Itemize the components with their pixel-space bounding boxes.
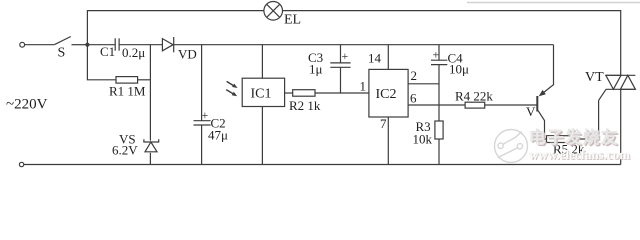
wire rail down to IC1: [261, 45, 263, 78]
label 47u: [208, 128, 228, 143]
wire IC1 to R2: [285, 92, 293, 94]
wire rail down to C4: [438, 45, 440, 61]
wire pin6 junction to R4 already in pin6 wire; resistor R4: [465, 102, 485, 108]
resistor R2: [293, 90, 315, 97]
svg-text:R1 1M: R1 1M: [109, 84, 146, 99]
svg-text:电子发烧友: 电子发烧友: [529, 127, 619, 147]
wire C1 to VD anode: [119, 44, 162, 46]
DC+ rail wire: [174, 44, 554, 46]
watermark text www.elecfans.com: [529, 147, 631, 163]
triac VT gate lead: [599, 89, 606, 100]
svg-text:S: S: [58, 46, 66, 61]
wire R3 to bottom rail: [438, 139, 440, 165]
svg-text:IC1: IC1: [251, 87, 272, 102]
wire R5 to triac gate: [572, 100, 599, 139]
watermark logo circle: [495, 130, 528, 163]
svg-text:~220V: ~220V: [6, 97, 48, 113]
lamp EL: [264, 2, 283, 21]
label + of C4: [433, 48, 440, 62]
switch S: [54, 37, 87, 45]
svg-text:IC2: IC2: [376, 87, 397, 102]
label C1: [100, 44, 115, 59]
label IC1: [251, 87, 272, 102]
label IC2: [376, 87, 397, 102]
capacitor C1: [115, 38, 119, 50]
wire VS to bottom rail: [149, 153, 151, 165]
svg-text:+: +: [342, 49, 349, 63]
label 0.2u: [122, 45, 145, 60]
capacitor C4: [431, 60, 447, 64]
IC2 pin2 wire: [408, 83, 439, 85]
IC2 box: [369, 69, 408, 117]
IC2 pin7 wire: [387, 117, 389, 165]
label VT: [585, 70, 604, 85]
wire R4 to transistor base: [485, 104, 537, 106]
label C2: [211, 116, 226, 131]
wire node B down (to R1 join and VS): [149, 45, 151, 141]
svg-text:R2 1k: R2 1k: [289, 98, 321, 113]
label pin 2: [411, 68, 418, 83]
IC1 box: [242, 78, 284, 106]
svg-text:EL: EL: [284, 13, 301, 28]
svg-text:VT: VT: [585, 70, 604, 85]
label 1u: [309, 62, 323, 77]
wire lamp to triac top: [283, 11, 621, 76]
wire C4 down through pin2 to R3: [438, 65, 440, 121]
svg-text:+: +: [433, 48, 440, 62]
svg-text:2: 2: [411, 68, 418, 83]
label + of C3: [342, 49, 349, 63]
diode VD: [162, 37, 173, 52]
label pin 6: [410, 91, 417, 106]
svg-text:47μ: 47μ: [208, 128, 228, 143]
resistor R3: [435, 121, 443, 139]
svg-text:C1: C1: [100, 44, 115, 59]
label EL: [284, 13, 301, 28]
svg-text:V: V: [526, 104, 536, 119]
terminal N (bottom input): [19, 162, 23, 166]
label R1 1M: [109, 84, 146, 99]
IC2 pin14 wire: [387, 45, 389, 70]
label R2 1k: [289, 98, 321, 113]
svg-text:14: 14: [368, 51, 382, 66]
wire node A up and to lamp: [87, 11, 263, 45]
label + of C2: [202, 108, 209, 122]
svg-text:0.2μ: 0.2μ: [122, 45, 145, 60]
resistor R1: [116, 77, 138, 84]
bottom rail wire: [24, 164, 621, 166]
svg-text:6.2V: 6.2V: [112, 143, 138, 158]
IC2 pin6 wire: [408, 104, 465, 106]
wire C3 to pin1 line: [340, 67, 342, 93]
wire rail down to C3: [340, 45, 342, 63]
resistor R5: [547, 136, 573, 143]
wire node A to C1: [87, 44, 115, 46]
wire R1 to node B branch: [138, 79, 151, 81]
label R5 2k: [553, 142, 585, 157]
transistor V base bar: [536, 96, 538, 112]
svg-text:10k: 10k: [413, 132, 433, 147]
capacitor C3: [330, 63, 350, 67]
label 6.2V: [112, 143, 138, 158]
wire IC1 to bottom rail: [261, 107, 263, 165]
svg-text:1: 1: [360, 79, 367, 94]
label R4 22k: [455, 89, 493, 104]
transistor V emitter with arrow: [539, 86, 552, 96]
svg-text:www.elecfans.com: www.elecfans.com: [529, 147, 630, 162]
svg-text:VD: VD: [178, 47, 197, 62]
svg-text:6: 6: [410, 91, 417, 106]
svg-text:7: 7: [380, 116, 387, 131]
node A junction dot: [85, 43, 89, 47]
label C4: [448, 51, 464, 66]
wire collector to R5: [545, 138, 547, 140]
label pin 1: [360, 79, 367, 94]
label VD: [178, 47, 197, 62]
svg-text:+: +: [202, 108, 209, 122]
wire terminal to switch: [25, 44, 55, 46]
svg-text:10μ: 10μ: [449, 62, 469, 77]
transistor V collector: [538, 111, 545, 140]
label pin 7: [380, 116, 387, 131]
faint page border line top right: [467, 2, 640, 4]
svg-text:1μ: 1μ: [309, 62, 323, 77]
wire triac to bottom rail: [620, 89, 622, 164]
wire rail down to C2: [201, 45, 203, 121]
triac VT: [606, 75, 636, 89]
label ~220V: [6, 97, 48, 113]
wire R2 to IC2 pin1: [315, 92, 369, 94]
wire C2 to bottom rail: [201, 125, 203, 165]
label pin 14: [368, 51, 382, 66]
zener diode VS: [144, 139, 159, 152]
watermark text dianzifashaoyou: [529, 127, 621, 149]
label R3: [416, 119, 431, 134]
wire emitter up to DC+ rail: [552, 45, 554, 86]
label 10k: [413, 132, 433, 147]
label C3: [308, 50, 323, 65]
capacitor C2: [194, 121, 211, 125]
terminal L (top input): [20, 42, 25, 47]
label 10u: [449, 62, 469, 77]
wire node A down to R1: [87, 45, 116, 80]
svg-text:R4 22k: R4 22k: [455, 89, 493, 104]
label V: [526, 104, 536, 119]
label S: [58, 46, 66, 61]
light arrows into IC1: [226, 81, 237, 96]
label VS: [119, 132, 136, 147]
